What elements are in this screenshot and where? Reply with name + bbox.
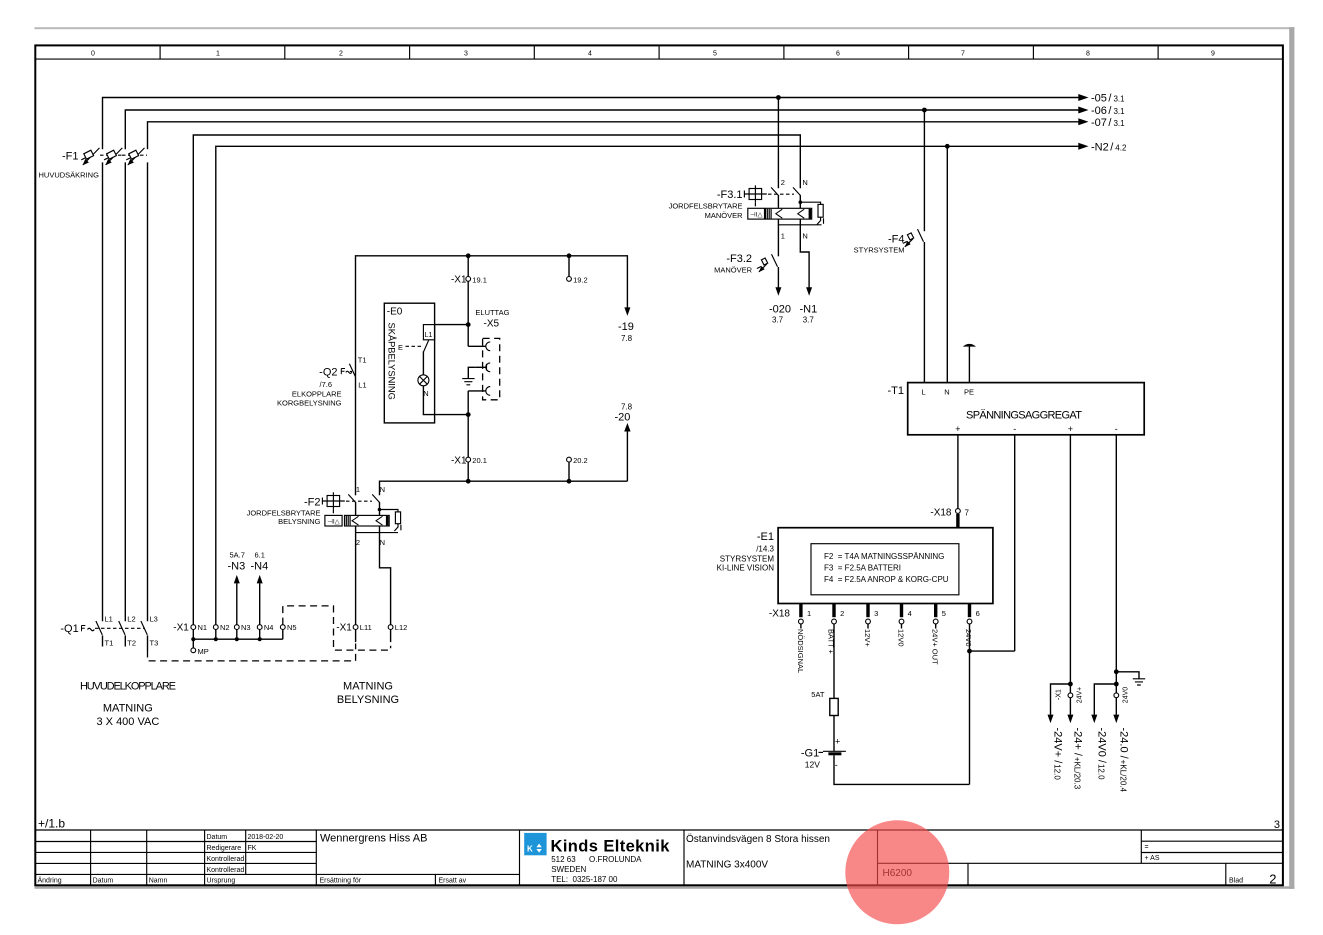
svg-text:L11: L11	[360, 623, 372, 632]
svg-text:9: 9	[1211, 50, 1215, 57]
wire -N2 tap to T1 N	[946, 146, 948, 382]
svg-text:6: 6	[836, 50, 840, 57]
svg-text:3: 3	[464, 50, 468, 57]
svg-text:-G1: -G1	[801, 748, 819, 760]
svg-text:Datum: Datum	[207, 834, 228, 841]
svg-text:⊣I△: ⊣I△	[750, 212, 763, 219]
customer name	[320, 833, 427, 845]
svg-text:1: 1	[781, 232, 785, 241]
svg-text:-24+ /+KL/20.3: -24+ /+KL/20.3	[1071, 728, 1083, 790]
svg-text:N: N	[380, 538, 385, 547]
connector -X18 bottom row label	[769, 608, 791, 619]
svg-text:JORDFELSBRYTARE: JORDFELSBRYTARE	[669, 201, 743, 210]
junction: -N2 to -T1 N	[945, 144, 950, 149]
arrow reference -19 / 7.8	[618, 307, 634, 343]
power supply unit -T1	[888, 383, 1145, 435]
label MATNING BELYSNING	[337, 681, 399, 707]
test button box	[743, 191, 745, 198]
svg-text:-X18: -X18	[930, 507, 952, 518]
svg-text:-X1: -X1	[173, 623, 189, 634]
arrow reference -N2 / 4.2	[1078, 141, 1127, 153]
svg-text:SPÄNNINGSAGGREGAT: SPÄNNINGSAGGREGAT	[966, 409, 1082, 421]
svg-text:-Q2: -Q2	[319, 367, 337, 379]
wire -05 tap to F3.1 pole 2	[777, 98, 779, 189]
svg-text:JORDFELSBRYTARE: JORDFELSBRYTARE	[247, 508, 321, 517]
svg-text:4: 4	[588, 50, 592, 57]
svg-text:F4 = F2.5A ANROP & KORG-CPU: F4 = F2.5A ANROP & KORG-CPU	[824, 575, 949, 584]
svg-text:L1: L1	[105, 615, 113, 624]
dashed field wiring T3 to L11	[148, 644, 356, 661]
connector pin X18:6	[964, 604, 980, 647]
connector pin X18:1	[796, 604, 811, 674]
svg-text:7: 7	[961, 50, 965, 57]
svg-text:1: 1	[356, 485, 360, 494]
svg-text:24V0: 24V0	[964, 629, 973, 647]
svg-text:Redigerare: Redigerare	[207, 845, 242, 852]
svg-text:T2: T2	[127, 639, 136, 648]
svg-text:Ursprung: Ursprung	[207, 878, 236, 885]
arrow reference -N4 / 6.1	[251, 551, 269, 625]
wire T1 second minus output down	[1114, 435, 1119, 693]
svg-text:12V+: 12V+	[863, 629, 872, 647]
svg-text:2: 2	[781, 178, 785, 187]
svg-text:-N4: -N4	[251, 561, 269, 573]
label HUVUDELKOPPLARE MATNING 3 X 400 VAC	[80, 681, 176, 729]
svg-text:-F4: -F4	[888, 234, 905, 246]
terminal -X1:N5	[280, 623, 296, 632]
wire -06 (L2 feed)	[125, 110, 1079, 149]
fuse 5AT	[811, 690, 838, 751]
pole blades	[771, 187, 779, 195]
socket outlet ELUTTAG -X5	[475, 308, 509, 400]
svg-text:-24.0 /+KL/20.4: -24.0 /+KL/20.4	[1117, 728, 1129, 793]
svg-text:-X18: -X18	[769, 608, 791, 619]
wire F3.1 N down to arrow -N1	[800, 219, 818, 324]
control wire E (dashed)	[398, 343, 422, 352]
svg-text:512 63 O.FROLUNDA: 512 63 O.FROLUNDA	[551, 855, 642, 864]
test resistor	[380, 510, 399, 512]
svg-text:1: 1	[216, 50, 220, 57]
svg-text:KORGBELYSNING: KORGBELYSNING	[277, 399, 342, 408]
svg-text:N: N	[802, 232, 807, 241]
svg-text:5: 5	[713, 50, 717, 57]
I-delta box	[325, 515, 342, 526]
svg-text:2: 2	[339, 50, 343, 57]
connector pin X18:4	[897, 604, 912, 647]
svg-text:Östanvindsvägen 8 Stora hissen: Östanvindsvägen 8 Stora hissen	[686, 833, 830, 845]
connector pin X18:5	[931, 604, 946, 666]
svg-text:-07/3.1: -07/3.1	[1091, 117, 1125, 129]
svg-text:L: L	[922, 387, 926, 396]
svg-text:3.7: 3.7	[803, 316, 815, 325]
pink highlight circle	[845, 820, 949, 924]
wire to arrow -020	[769, 267, 791, 325]
terminal -X1:L12	[388, 623, 407, 642]
junction: -05 to -F3.1 pole 2	[776, 95, 781, 100]
svg-text:+/1.b: +/1.b	[38, 817, 65, 831]
svg-text:N5: N5	[287, 623, 297, 632]
svg-text:4: 4	[908, 609, 912, 618]
drawing number H6200	[883, 868, 913, 879]
svg-text:24V+ OUT: 24V+ OUT	[931, 629, 940, 665]
lamp symbol in E0	[418, 351, 468, 414]
wire Q2 to F2 pole 1	[355, 376, 357, 495]
svg-text:N2: N2	[220, 623, 230, 632]
svg-text:KI-LINE VISION: KI-LINE VISION	[717, 564, 775, 573]
svg-text:2: 2	[356, 538, 360, 547]
svg-text:Kontrollerad: Kontrollerad	[207, 856, 245, 863]
wire L1 vertical (F1 to Q1)	[102, 162, 104, 621]
svg-text:-24V+ /12.0: -24V+ /12.0	[1052, 728, 1064, 781]
terminal group -X1 L row label	[336, 623, 352, 634]
wire T2 stub	[124, 635, 126, 646]
I-delta box	[748, 208, 765, 219]
wire top feed of lighting circuit	[356, 253, 628, 376]
RCD -F2 JORDFELSBRYTARE BELYSNING	[247, 485, 401, 547]
svg-text:BELYSNING: BELYSNING	[278, 517, 321, 526]
svg-text:19.1: 19.1	[472, 275, 487, 284]
branch to arrow -24V0	[1091, 684, 1116, 780]
wire -N2 (neutral horizontal)	[216, 146, 1080, 624]
svg-text:L12: L12	[395, 623, 408, 632]
svg-text:-X5: -X5	[484, 318, 500, 329]
switch -Q2 (ELKOPPLARE KORGBELYSNING)	[277, 356, 367, 408]
svg-text:L1: L1	[425, 332, 433, 339]
svg-text:-F1: -F1	[62, 151, 79, 163]
svg-text:N: N	[944, 387, 949, 396]
PE stub with earth mark	[963, 344, 976, 383]
main switch -Q1	[60, 615, 158, 648]
test button box	[321, 498, 323, 505]
svg-text:Blad: Blad	[1229, 878, 1243, 885]
svg-text:-N1: -N1	[800, 304, 818, 316]
socket contact 1	[468, 342, 490, 351]
function labels	[1145, 844, 1160, 862]
svg-text:Datum: Datum	[93, 878, 114, 885]
svg-text:MANÖVER: MANÖVER	[714, 266, 753, 275]
switch blade in E0	[424, 340, 429, 351]
connector pin X18:2	[827, 604, 845, 655]
wire F2 pole1 to L11	[355, 526, 357, 625]
pole blades	[348, 494, 356, 502]
svg-text:-: -	[835, 760, 838, 770]
svg-text:⊣I△: ⊣I△	[327, 519, 340, 526]
svg-text:3: 3	[1274, 819, 1280, 831]
wire T1 +24 output to X18:7	[957, 435, 959, 509]
svg-text:-20: -20	[615, 412, 631, 424]
arrow reference -07 / 3.1	[1078, 117, 1125, 129]
svg-text:T3: T3	[150, 639, 159, 648]
svg-text:-F3.1: -F3.1	[717, 189, 743, 201]
svg-text:L1: L1	[358, 381, 366, 390]
wire E0 L1 top connection	[435, 324, 469, 326]
svg-text:-X1: -X1	[1056, 689, 1063, 700]
svg-text:+: +	[835, 737, 840, 747]
svg-text:+: +	[1068, 424, 1073, 434]
column ruler	[35, 45, 1283, 59]
svg-text:20.1: 20.1	[472, 456, 487, 465]
branch to arrow -24V+	[1048, 684, 1071, 780]
title block grid	[35, 830, 1283, 885]
svg-text:N3: N3	[241, 623, 251, 632]
svg-text:12V0: 12V0	[897, 629, 906, 647]
arrow reference -06 / 3.1	[1078, 105, 1125, 117]
svg-text:STYRSYSTEM: STYRSYSTEM	[720, 555, 775, 564]
svg-text:Ändring: Ändring	[38, 877, 62, 885]
wire to arrow -24.0	[1113, 698, 1129, 793]
title block left labels	[38, 834, 467, 885]
wire 19.1 down to outlet	[466, 281, 471, 346]
neutral bus below X1	[191, 630, 283, 642]
svg-text:K: K	[527, 845, 533, 854]
wire F4 to T1 L	[923, 242, 925, 383]
svg-text:-: -	[1013, 424, 1016, 434]
svg-text:7.8: 7.8	[621, 334, 633, 343]
terminal -X1:N2	[213, 623, 229, 632]
terminal -X1:20.2	[567, 456, 588, 481]
bottom neutral wire of lighting circuit	[380, 479, 628, 495]
svg-text:7.8: 7.8	[621, 403, 633, 412]
svg-text:+ AS: + AS	[1145, 855, 1160, 862]
terminal -X1:19.2	[567, 256, 588, 284]
svg-text:2: 2	[840, 609, 844, 618]
svg-text:20.2: 20.2	[573, 456, 588, 465]
terminal -X1:L11	[353, 623, 372, 642]
svg-text:Kontrollerad: Kontrollerad	[207, 867, 245, 874]
svg-text:N: N	[802, 178, 807, 187]
terminal -X1:N4	[257, 623, 273, 632]
wire -07 (L3 feed)	[148, 122, 1080, 149]
svg-text:-X1: -X1	[336, 623, 352, 634]
svg-text:-F3.2: -F3.2	[726, 253, 752, 265]
arrow reference -20 / 7.8 (up)	[615, 403, 633, 482]
svg-text:0: 0	[91, 50, 95, 57]
terminal group -X1 N row label	[173, 623, 189, 634]
svg-text:3: 3	[874, 609, 878, 618]
svg-text:NÖDSIGNAL: NÖDSIGNAL	[796, 629, 805, 673]
wire F3.1 pole1 down	[777, 219, 779, 256]
svg-text:BELYSNING: BELYSNING	[337, 694, 399, 706]
terminal box L1 in E0	[423, 325, 434, 340]
wire T1 +24V second output down	[1068, 435, 1073, 693]
lamp unit -E0 SKAPBELYSNING box	[384, 303, 434, 423]
svg-text:24V0: 24V0	[1123, 687, 1130, 703]
svg-text:=: =	[1145, 844, 1149, 851]
svg-text:MATNING 3x400V: MATNING 3x400V	[686, 860, 768, 871]
svg-text:MATNING: MATNING	[103, 703, 153, 715]
svg-text:MATNING: MATNING	[343, 681, 393, 693]
svg-text:-F2: -F2	[304, 497, 321, 509]
svg-text:-020: -020	[769, 304, 791, 316]
battery -G1 12V	[801, 737, 970, 785]
svg-text:PE: PE	[964, 387, 974, 396]
svg-text:E: E	[398, 343, 403, 352]
RCD -F3.1 JORDFELSBRYTARE MANOVER	[669, 178, 824, 241]
fuse switch -F4 STYRSYSTEM	[854, 229, 924, 254]
sheet note 3	[1274, 819, 1280, 831]
svg-text:Ersatt av: Ersatt av	[439, 878, 467, 885]
socket contact PE with earth	[475, 363, 490, 372]
svg-text:N: N	[423, 389, 428, 398]
svg-text:2: 2	[1269, 872, 1276, 887]
svg-text:-N3: -N3	[228, 561, 246, 573]
sheet label Blad 2	[1229, 872, 1277, 887]
terminal 24V0	[1114, 687, 1130, 703]
wire L3 vertical	[147, 162, 149, 621]
svg-text:T1: T1	[358, 356, 367, 365]
earth ground symbol	[462, 367, 475, 385]
revision mark +/1.b	[38, 817, 65, 831]
connector -X18:7	[930, 507, 969, 527]
svg-text:SWEDEN: SWEDEN	[551, 865, 586, 874]
svg-text:/14.3: /14.3	[756, 545, 774, 554]
svg-text:+: +	[955, 424, 960, 434]
svg-text:-06/3.1: -06/3.1	[1091, 105, 1125, 117]
svg-text:-Q1: -Q1	[60, 623, 78, 635]
terminal -X1:24V+	[1056, 687, 1084, 704]
svg-text:-X1: -X1	[451, 275, 467, 286]
svg-text:19.2: 19.2	[573, 275, 588, 284]
svg-text:5: 5	[942, 609, 946, 618]
test resistor	[800, 202, 820, 204]
svg-text:-X1: -X1	[451, 455, 467, 466]
svg-text:6.1: 6.1	[255, 551, 265, 560]
wire T1 minus output down	[1014, 435, 1016, 651]
connector pin X18:3	[863, 604, 878, 648]
svg-text:-24V0 /12.0: -24V0 /12.0	[1095, 728, 1107, 781]
svg-text:-: -	[1115, 424, 1118, 434]
wire -05 (L1 feed, top horizontal)	[103, 98, 1080, 150]
svg-text:MP: MP	[198, 647, 209, 656]
svg-text:6: 6	[976, 609, 980, 618]
earth ground on 24V0	[1116, 672, 1145, 685]
wire X18:2 to battery fuse	[833, 624, 835, 699]
svg-text:STYRSYSTEM: STYRSYSTEM	[854, 246, 905, 255]
svg-text:ELKOPPLARE: ELKOPPLARE	[292, 390, 342, 399]
svg-text:/7.6: /7.6	[319, 380, 332, 389]
svg-text:SKÅPBELYSNING: SKÅPBELYSNING	[387, 323, 397, 400]
svg-text:-E1: -E1	[757, 531, 774, 543]
svg-text:12V: 12V	[805, 760, 820, 770]
svg-text:8: 8	[1086, 50, 1090, 57]
svg-text:5A.7: 5A.7	[230, 551, 245, 560]
terminal MP	[191, 639, 209, 656]
wire T1 stub	[102, 635, 104, 646]
wire 20.1 down	[451, 415, 487, 482]
svg-text:L2: L2	[127, 615, 135, 624]
arrow reference -05 / 3.1	[1078, 93, 1125, 105]
control system -E1 box	[717, 528, 993, 604]
wire T3 stub	[147, 635, 149, 650]
junction E0 bottom to outlet neutral	[466, 412, 471, 417]
wire to arrow -24+	[1067, 698, 1083, 790]
svg-text:FK: FK	[248, 845, 257, 852]
svg-text:Ersättning för: Ersättning för	[320, 878, 362, 885]
svg-text:5AT: 5AT	[811, 690, 825, 699]
svg-text:24V+: 24V+	[1077, 687, 1084, 704]
svg-text:Namn: Namn	[149, 878, 168, 885]
junction: -06 to -F4	[922, 108, 927, 113]
fuse switch -F3.2 MANOVER	[714, 253, 777, 275]
svg-text:1: 1	[807, 609, 811, 618]
wire F2 N to L12	[380, 526, 391, 625]
dashed field wiring N5 to L12	[283, 606, 391, 650]
logo Kinds Elteknik	[524, 833, 670, 884]
svg-text:2018-02-20: 2018-02-20	[248, 834, 284, 841]
svg-text:-E0: -E0	[387, 307, 403, 318]
wire N feed to -F3.1 N pole	[193, 135, 800, 625]
fuse breaker -F1 (3 poles)	[39, 148, 148, 180]
terminal -X1:N3	[234, 623, 250, 632]
project title	[686, 833, 830, 871]
svg-text:HUVUDELKOPPLARE: HUVUDELKOPPLARE	[80, 681, 176, 693]
svg-text:F2 = T4A MATNINGSSPÄNNING: F2 = T4A MATNINGSSPÄNNING	[824, 552, 944, 561]
svg-text:7: 7	[965, 508, 970, 517]
wire L2 vertical	[124, 162, 126, 621]
svg-text:-05/3.1: -05/3.1	[1091, 93, 1125, 105]
arrow reference -N3 / 5A.7	[228, 551, 246, 625]
svg-text:N4: N4	[264, 623, 274, 632]
socket contact 2	[468, 387, 490, 415]
terminal -X1:N1	[191, 623, 207, 632]
CT body	[766, 208, 812, 219]
svg-text:MANÖVER: MANÖVER	[705, 211, 744, 220]
svg-text:T1: T1	[105, 639, 114, 648]
svg-text:N: N	[380, 485, 385, 494]
terminal -X1:19.1	[451, 256, 487, 286]
svg-text:TEL: 0325-187 00: TEL: 0325-187 00	[551, 875, 618, 884]
svg-text:Kinds Elteknik: Kinds Elteknik	[551, 838, 671, 856]
svg-text:3.7: 3.7	[772, 316, 784, 325]
svg-text:N1: N1	[198, 623, 208, 632]
svg-text:HUVUDSÄKRING: HUVUDSÄKRING	[39, 171, 100, 180]
svg-text:F3 = F2.5A BATTERI: F3 = F2.5A BATTERI	[824, 564, 901, 573]
wire -06 tap to F4	[923, 110, 925, 231]
svg-text:-T1: -T1	[888, 385, 905, 397]
svg-text:3 X 400 VAC: 3 X 400 VAC	[97, 716, 160, 728]
svg-text:-19: -19	[618, 321, 634, 333]
svg-text:ELUTTAG: ELUTTAG	[475, 308, 509, 317]
svg-text:L3: L3	[150, 615, 158, 624]
svg-text:Wennergrens Hiss AB: Wennergrens Hiss AB	[320, 833, 427, 845]
CT body	[345, 515, 390, 526]
wire X18:6 / 24V0 net	[967, 624, 1015, 785]
